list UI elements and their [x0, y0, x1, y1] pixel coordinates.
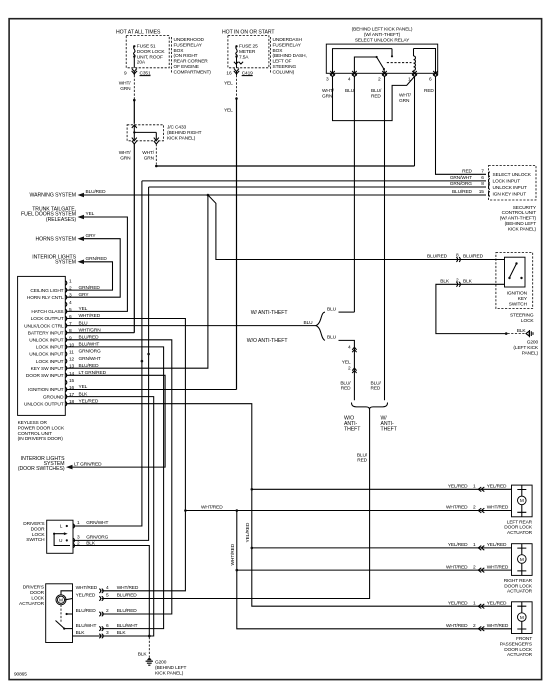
svg-text:BLU/: BLU/ — [340, 380, 351, 386]
svg-text:DOOR LOCK: DOOR LOCK — [504, 525, 533, 531]
svg-text:OF ENGINE: OF ENGINE — [174, 64, 199, 70]
brace merge anti-theft wires — [344, 403, 398, 433]
driver's door lock switch — [23, 520, 74, 553]
ground G200 bottom — [146, 657, 187, 676]
wire GRY pin3 to horns arrow — [66, 239, 120, 298]
svg-text:(IN DRIVER'S DOOR): (IN DRIVER'S DOOR) — [18, 436, 64, 442]
svg-text:2: 2 — [77, 540, 80, 546]
svg-text:YEL/RED: YEL/RED — [245, 522, 251, 542]
svg-text:BLU: BLU — [304, 320, 314, 326]
svg-text:(RELEASES): (RELEASES) — [46, 217, 76, 223]
svg-text:5: 5 — [69, 307, 72, 313]
svg-text:WHT/RED: WHT/RED — [487, 564, 509, 570]
svg-text:G200: G200 — [527, 340, 539, 346]
svg-text:BLU/: BLU/ — [371, 380, 382, 386]
svg-text:FUSE/RELAY: FUSE/RELAY — [174, 42, 203, 48]
svg-text:LOCK: LOCK — [31, 595, 45, 601]
svg-text:9: 9 — [69, 335, 72, 341]
svg-text:YEL/RED: YEL/RED — [448, 600, 468, 606]
svg-text:M: M — [520, 557, 524, 563]
wire BLU/RED jog to ignition key switch — [208, 195, 505, 262]
svg-text:4: 4 — [348, 345, 351, 351]
svg-text:1: 1 — [77, 520, 80, 526]
svg-text:7: 7 — [481, 169, 484, 175]
wire BLU/RED branch down to control pin 13 — [66, 195, 208, 368]
svg-text:20A: 20A — [137, 60, 146, 66]
svg-text:2: 2 — [348, 366, 351, 372]
svg-text:4: 4 — [106, 585, 109, 591]
svg-text:SWITCH: SWITCH — [26, 537, 45, 543]
svg-text:HORNS SYSTEM: HORNS SYSTEM — [35, 236, 76, 242]
junction connector J/C C433 — [127, 125, 202, 144]
svg-text:GRN/RED: GRN/RED — [79, 285, 101, 291]
driver actuator pin connectors and labels — [76, 585, 139, 638]
svg-text:6: 6 — [69, 314, 72, 320]
svg-text:6: 6 — [481, 175, 484, 181]
wire BLK pin17 to driver actuator pin3 row — [66, 397, 154, 636]
wire WHT/GRN J/C to control unit pin 8 — [119, 144, 135, 333]
svg-text:IGNITION INPUT: IGNITION INPUT — [28, 387, 64, 393]
svg-text:THEFT: THEFT — [381, 426, 398, 432]
svg-text:4: 4 — [348, 77, 351, 83]
svg-text:DOOR LOCK: DOOR LOCK — [504, 583, 533, 589]
svg-text:YEL/RED: YEL/RED — [487, 484, 507, 490]
connector C351 pin 9 — [124, 69, 151, 77]
svg-text:M: M — [520, 615, 524, 621]
svg-text:(BEHIND LEFT KICK PANEL): (BEHIND LEFT KICK PANEL) — [352, 27, 413, 33]
wire BLU/RED row warning system to security pin 15 — [84, 189, 486, 195]
svg-text:YEL: YEL — [342, 359, 351, 365]
svg-text:COLUMN): COLUMN) — [273, 69, 295, 75]
svg-text:RED: RED — [424, 88, 434, 94]
wire WHT/GRN fuse51 to junction — [119, 75, 136, 124]
svg-text:GRN/ORG: GRN/ORG — [450, 181, 472, 187]
svg-text:UNDERDASH: UNDERDASH — [273, 37, 303, 43]
svg-text:GRY: GRY — [86, 233, 97, 239]
wire RED relay pin6 to security unit — [436, 76, 487, 175]
svg-text:YEL: YEL — [224, 108, 233, 114]
svg-text:DRIVER'S: DRIVER'S — [23, 521, 44, 527]
wire GRN/RED pin2 to interior lights arrow — [66, 262, 113, 290]
svg-text:BLU/WHT: BLU/WHT — [76, 623, 97, 629]
wire YEL pin5 to trunk arrow — [66, 217, 127, 311]
svg-text:RIGHT REAR: RIGHT REAR — [504, 578, 533, 584]
control unit: KEYLESS OR POWER DOOR LOCK CONTROL UNIT — [18, 276, 66, 442]
svg-text:BLU/RED: BLU/RED — [79, 363, 100, 369]
arrow TRUNK TAILGATE FUEL DOORS SYSTEM — [21, 207, 95, 223]
svg-text:DRIVER'S: DRIVER'S — [23, 585, 44, 591]
svg-text:DOOR: DOOR — [31, 526, 46, 532]
arrow INTERIOR LIGHTS SYSTEM (DOOR SWITCHES) — [18, 456, 102, 472]
svg-text:90865: 90865 — [14, 672, 27, 678]
svg-text:2: 2 — [473, 505, 476, 511]
svg-text:WHT/: WHT/ — [119, 150, 132, 156]
svg-text:1: 1 — [69, 279, 72, 285]
svg-text:UNLOCK OUTPUT: UNLOCK OUTPUT — [24, 401, 64, 407]
svg-text:L: L — [60, 524, 63, 530]
left rear door lock actuator — [504, 485, 533, 536]
svg-text:1: 1 — [473, 484, 476, 490]
svg-text:DOOR LOCK: DOOR LOCK — [137, 49, 166, 55]
svg-text:BLU/WHT: BLU/WHT — [117, 623, 138, 629]
svg-text:YEL/RED: YEL/RED — [76, 593, 96, 599]
svg-text:GRN/WHT: GRN/WHT — [79, 356, 101, 362]
svg-text:BLU/RED: BLU/RED — [117, 608, 138, 614]
svg-text:1: 1 — [473, 542, 476, 548]
svg-text:GRN/ORG: GRN/ORG — [79, 349, 101, 355]
svg-text:BOX: BOX — [174, 48, 185, 54]
svg-text:SELECT UNLOCK RELAY: SELECT UNLOCK RELAY — [355, 38, 410, 44]
svg-text:LOCK OUTPUT: LOCK OUTPUT — [31, 316, 64, 322]
svg-text:DOOR SW INPUT: DOOR SW INPUT — [26, 373, 64, 379]
svg-text:COMPARTMENT): COMPARTMENT) — [174, 69, 212, 75]
wire GRN/WHT vertical to pin12 and door lock switch — [73, 181, 143, 526]
svg-text:SECURITY: SECURITY — [513, 205, 537, 211]
svg-text:5: 5 — [106, 593, 109, 599]
svg-text:BLK: BLK — [86, 540, 96, 546]
svg-text:BLU/RED: BLU/RED — [117, 593, 138, 599]
svg-text:WHT/RED: WHT/RED — [446, 623, 468, 629]
svg-text:(BEHIND LEFT: (BEHIND LEFT — [505, 221, 537, 227]
svg-text:FUSE 51: FUSE 51 — [137, 44, 156, 50]
svg-text:2: 2 — [473, 564, 476, 570]
relay pins 3 4 2 1 6 — [322, 71, 438, 104]
svg-text:10: 10 — [69, 342, 75, 348]
svg-text:GRY: GRY — [79, 292, 90, 298]
wire BLU relay pin4 down — [353, 76, 355, 313]
right rear door lock actuator — [504, 544, 533, 595]
wire BLK switch pin2 to ground row — [73, 540, 149, 636]
svg-text:FRONT: FRONT — [516, 636, 532, 642]
svg-text:WHT/: WHT/ — [119, 81, 132, 87]
svg-text:WHT/: WHT/ — [142, 150, 155, 156]
svg-text:KEYLESS OR: KEYLESS OR — [18, 420, 48, 426]
svg-text:8: 8 — [69, 328, 72, 334]
svg-text:PANEL): PANEL) — [522, 350, 539, 356]
svg-text:KEY SW INPUT: KEY SW INPUT — [31, 366, 64, 372]
svg-text:PASSENGER'S: PASSENGER'S — [500, 641, 532, 647]
svg-text:3: 3 — [326, 77, 329, 83]
svg-text:GRN: GRN — [120, 156, 131, 162]
svg-text:8: 8 — [481, 181, 484, 187]
wire WHT/GRN long row to relay pin 1 — [156, 165, 414, 167]
svg-text:LOCK INPUT: LOCK INPUT — [493, 179, 521, 185]
svg-text:CONTROL UNIT: CONTROL UNIT — [502, 210, 537, 216]
arrow INTERIOR LIGHTS SYSTEM — [32, 254, 107, 265]
svg-text:GROUND: GROUND — [43, 394, 64, 400]
svg-text:(DOOR SWITCHES): (DOOR SWITCHES) — [18, 466, 65, 472]
svg-text:BOX: BOX — [273, 48, 284, 54]
svg-text:ACTUATOR: ACTUATOR — [507, 652, 533, 658]
svg-text:KICK PANEL): KICK PANEL) — [508, 226, 537, 232]
ground G200 right — [513, 330, 538, 356]
svg-text:BLK: BLK — [117, 630, 127, 636]
svg-text:J/C C433: J/C C433 — [167, 125, 186, 131]
svg-text:RED: RED — [371, 94, 381, 100]
svg-text:CEILING LIGHT: CEILING LIGHT — [30, 288, 63, 294]
wire YEL/RED pin18 to rear/front actuators bus — [66, 404, 512, 607]
svg-text:UNDERHOOD: UNDERHOOD — [174, 37, 205, 43]
svg-text:16: 16 — [226, 71, 232, 77]
svg-text:YEL/RED: YEL/RED — [448, 542, 468, 548]
svg-text:6: 6 — [429, 77, 432, 83]
svg-text:(LEFT KICK: (LEFT KICK — [513, 345, 538, 351]
svg-text:HORN RLY CNTL: HORN RLY CNTL — [27, 295, 64, 301]
svg-text:(BEHIND RIGHT: (BEHIND RIGHT — [167, 130, 202, 136]
svg-text:THEFT: THEFT — [344, 426, 361, 432]
svg-text:KICK PANEL): KICK PANEL) — [167, 136, 196, 142]
svg-text:STEERING: STEERING — [273, 64, 297, 70]
wire WHT/RED pin6 lock output net — [66, 319, 512, 629]
svg-text:GRN: GRN — [144, 156, 155, 162]
wire BLU/RED merged to driver actuator pin5 — [102, 410, 370, 599]
svg-text:DOOR: DOOR — [30, 590, 45, 596]
svg-text:M: M — [520, 498, 524, 504]
svg-text:(BEHIND DASH,: (BEHIND DASH, — [273, 53, 307, 59]
svg-text:BATTERY INPUT: BATTERY INPUT — [28, 330, 64, 336]
svg-text:YEL/RED: YEL/RED — [448, 484, 468, 490]
wire GRN/ORG switch pin3 — [77, 535, 109, 541]
svg-text:LT GRN/RED: LT GRN/RED — [79, 370, 107, 376]
arrow HORNS SYSTEM — [35, 233, 96, 243]
svg-text:11: 11 — [69, 350, 74, 356]
svg-text:WHT/RED: WHT/RED — [76, 585, 98, 591]
svg-text:SYSTEM: SYSTEM — [55, 260, 76, 266]
svg-text:POWER DOOR LOCK: POWER DOOR LOCK — [18, 425, 65, 431]
right rear actuator pin labels — [446, 542, 509, 572]
svg-text:14: 14 — [69, 371, 75, 377]
svg-text:ACTUATOR: ACTUATOR — [507, 589, 533, 595]
svg-text:LT GRN/RED: LT GRN/RED — [74, 461, 102, 467]
svg-text:3: 3 — [77, 535, 80, 541]
svg-text:W/O ANTI-THEFT: W/O ANTI-THEFT — [247, 338, 289, 344]
svg-text:LEFT REAR: LEFT REAR — [507, 519, 533, 525]
node BLK ground junction G200 bottom — [138, 635, 151, 658]
svg-text:WHT/: WHT/ — [399, 93, 412, 99]
svg-text:LOCK: LOCK — [521, 318, 535, 324]
wire BLU/WHT pin10 to driver actuator pin6 — [66, 347, 164, 629]
svg-text:HATCH GLASS: HATCH GLASS — [31, 309, 63, 315]
svg-text:LOCK INPUT: LOCK INPUT — [36, 359, 64, 365]
svg-text:7: 7 — [69, 321, 72, 327]
wire GRN/WHT row to security pin 6 — [142, 175, 486, 181]
driver's door lock actuator — [19, 584, 101, 643]
svg-text:UNLOCK INPUT: UNLOCK INPUT — [493, 185, 527, 191]
wire YEL/RED row to right rear actuator — [252, 547, 512, 549]
svg-text:LOCK: LOCK — [32, 532, 46, 538]
svg-text:2: 2 — [378, 77, 381, 83]
svg-text:BLU: BLU — [327, 335, 337, 341]
svg-text:WHT/RED: WHT/RED — [117, 585, 139, 591]
left rear actuator pin labels — [446, 484, 509, 513]
svg-text:WHT/RED: WHT/RED — [487, 505, 509, 511]
svg-text:3: 3 — [106, 630, 109, 636]
svg-text:HOT IN ON OR START: HOT IN ON OR START — [222, 30, 275, 36]
svg-text:G200: G200 — [155, 660, 167, 666]
svg-text:(W/ ANTI-THEFT): (W/ ANTI-THEFT) — [364, 32, 401, 38]
svg-text:GRN/WHT: GRN/WHT — [450, 175, 472, 181]
svg-text:WHT/RED: WHT/RED — [230, 543, 236, 565]
svg-text:BLU/RED: BLU/RED — [86, 189, 107, 195]
svg-text:UNLOCK INPUT: UNLOCK INPUT — [29, 352, 63, 358]
connector C419 pin 16 — [226, 69, 253, 77]
connector pins 4/2 on w/o anti-theft path — [340, 345, 381, 392]
svg-text:GRN/RED: GRN/RED — [86, 256, 108, 262]
svg-text:GRN: GRN — [322, 94, 333, 100]
svg-text:GRN: GRN — [120, 86, 131, 92]
wire GRN/WHT switch pin1 — [77, 520, 108, 526]
svg-text:(ON RIGHT: (ON RIGHT — [174, 53, 198, 59]
node BLU/RED junction — [207, 194, 210, 197]
svg-text:2: 2 — [69, 286, 72, 292]
front passenger actuator pin labels — [446, 600, 509, 631]
svg-text:2: 2 — [473, 623, 476, 629]
svg-text:STEERING: STEERING — [510, 313, 534, 319]
svg-text:W/ ANTI-THEFT: W/ ANTI-THEFT — [251, 310, 289, 316]
wire BLU pin7 with anti-theft split — [66, 306, 354, 400]
ignition key switch — [496, 253, 535, 324]
wire GRN/ORG row to security pin 8 — [149, 181, 486, 187]
wire WHT/GRN relay pin1 down to long row — [414, 76, 416, 166]
wire LT GRN/RED pin14 to door switches arrow — [66, 375, 165, 467]
label UNDERDASH FUSE/RELAY BOX — [271, 37, 307, 75]
svg-text:12: 12 — [69, 357, 75, 363]
control unit pins 1-18 connectors and numbers — [65, 279, 74, 406]
wire GRN/ORG vertical to pin11 and door lock switch — [73, 187, 150, 540]
wire BLU/RED pin9 to driver actuator pin2 — [66, 340, 172, 614]
svg-text:13: 13 — [69, 364, 75, 370]
svg-text:BLU/RED: BLU/RED — [452, 189, 473, 195]
svg-text:7.5A: 7.5A — [239, 54, 249, 60]
wire pin8 WHT/GRN stub — [66, 332, 134, 334]
svg-text:KEY: KEY — [518, 296, 528, 302]
svg-text:2: 2 — [106, 608, 109, 614]
svg-text:IGN KEY INPUT: IGN KEY INPUT — [493, 192, 527, 198]
svg-text:LOCK INPUT: LOCK INPUT — [36, 345, 64, 351]
control unit wire color labels — [79, 285, 107, 405]
svg-text:RED: RED — [341, 386, 351, 392]
svg-text:IGNITION: IGNITION — [507, 291, 528, 297]
svg-text:GRN: GRN — [399, 98, 410, 104]
svg-text:BLU/: BLU/ — [371, 88, 382, 94]
svg-text:(BEHIND LEFT: (BEHIND LEFT — [155, 665, 187, 671]
svg-text:KICK PANEL): KICK PANEL) — [155, 670, 184, 676]
svg-text:6: 6 — [106, 623, 109, 629]
svg-text:WHT/RED: WHT/RED — [201, 505, 223, 511]
svg-text:BLK: BLK — [138, 652, 148, 658]
wire pin16 YEL stub — [66, 389, 237, 391]
svg-text:WARNING SYSTEM: WARNING SYSTEM — [29, 193, 76, 199]
svg-text:WHT/RED: WHT/RED — [446, 505, 468, 511]
svg-text:LEFT OF: LEFT OF — [273, 59, 292, 65]
svg-text:RED: RED — [371, 386, 381, 392]
fuse F25 METER — [222, 30, 275, 68]
svg-text:BLU: BLU — [327, 306, 337, 312]
svg-text:GRN/WHT: GRN/WHT — [86, 520, 108, 526]
svg-text:BLU/RED: BLU/RED — [427, 254, 448, 260]
svg-text:15: 15 — [479, 189, 485, 195]
svg-text:16: 16 — [69, 385, 75, 391]
svg-text:YEL: YEL — [79, 306, 88, 312]
svg-text:3: 3 — [69, 293, 72, 299]
svg-text:UNIT, ROOF: UNIT, ROOF — [137, 54, 163, 60]
wire YEL/RED row to left rear actuator — [252, 488, 512, 490]
security control unit box — [489, 166, 537, 233]
svg-text:YEL: YEL — [86, 211, 95, 217]
svg-text:M: M — [59, 598, 63, 604]
arrow WARNING SYSTEM — [29, 193, 84, 199]
svg-text:18: 18 — [69, 399, 75, 405]
svg-text:FUSE/RELAY: FUSE/RELAY — [273, 42, 302, 48]
label UNDERHOOD FUSE/RELAY BOX — [172, 37, 212, 75]
svg-text:ACTUATOR: ACTUATOR — [507, 530, 533, 536]
wire WHT/GRN relay pin3 to pin1 link — [333, 76, 415, 121]
svg-text:BLU: BLU — [345, 88, 355, 94]
svg-text:HOT AT ALL TIMES: HOT AT ALL TIMES — [116, 30, 161, 36]
wire BLU/RED relay pin2 down — [384, 76, 386, 401]
svg-text:BLK: BLK — [463, 279, 473, 285]
svg-text:BLU/: BLU/ — [357, 452, 368, 458]
svg-text:17: 17 — [69, 392, 75, 398]
wire YEL fuse25 down to control unit pin 16 — [224, 75, 238, 390]
relay: SELECT UNLOCK RELAY — [326, 27, 437, 74]
svg-text:YEL: YEL — [224, 81, 233, 87]
svg-text:WHT/RED: WHT/RED — [487, 623, 509, 629]
svg-text:WHT/RED: WHT/RED — [446, 564, 468, 570]
svg-text:CONTROL UNIT: CONTROL UNIT — [18, 431, 53, 437]
svg-text:4: 4 — [69, 300, 72, 306]
svg-text:SELECT UNLOCK: SELECT UNLOCK — [493, 172, 532, 178]
svg-text:BLK: BLK — [440, 279, 450, 285]
svg-text:METER: METER — [239, 49, 256, 55]
svg-text:FUSE 25: FUSE 25 — [239, 44, 258, 50]
wire BLK ignition key switch to ground — [436, 277, 527, 335]
svg-text:1: 1 — [473, 600, 476, 606]
svg-text:YEL/RED: YEL/RED — [487, 542, 507, 548]
svg-text:ACTUATOR: ACTUATOR — [19, 601, 45, 607]
fuse F51 DOOR LOCK UNIT — [116, 30, 169, 68]
svg-text:RED: RED — [357, 458, 367, 464]
svg-text:BLU/RED: BLU/RED — [76, 608, 97, 614]
svg-text:YEL/RED: YEL/RED — [487, 600, 507, 606]
svg-text:RED: RED — [462, 169, 472, 175]
wire WHT/GRN J/C dashed branch to node — [142, 144, 157, 167]
svg-text:GRN/ORG: GRN/ORG — [86, 535, 108, 541]
control unit left pin-function labels — [24, 288, 64, 408]
svg-text:9: 9 — [124, 71, 127, 77]
svg-text:BLK: BLK — [517, 328, 527, 334]
svg-text:SWITCH: SWITCH — [509, 301, 528, 307]
svg-text:(W/ ANTI-THEFT): (W/ ANTI-THEFT) — [500, 216, 537, 222]
svg-text:BLU/RED: BLU/RED — [463, 254, 484, 260]
svg-text:DOOR LOCK: DOOR LOCK — [504, 647, 533, 653]
svg-text:BLK: BLK — [76, 630, 86, 636]
svg-text:UNLK/LOCK CTRL: UNLK/LOCK CTRL — [24, 323, 64, 329]
svg-text:REAR CORNER: REAR CORNER — [174, 59, 209, 65]
svg-text:UNLOCK INPUT: UNLOCK INPUT — [29, 338, 63, 344]
front passenger's door lock actuator — [500, 602, 533, 658]
svg-text:15: 15 — [69, 378, 75, 384]
